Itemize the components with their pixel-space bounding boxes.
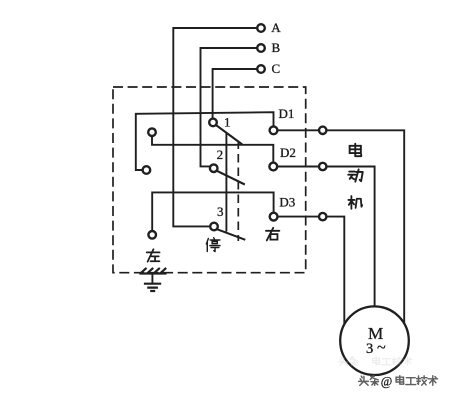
wire U to motor — [326, 130, 404, 324]
watermark ghost row — [339, 357, 412, 366]
chassis ground line — [139, 272, 166, 274]
contact L3 — [148, 231, 156, 239]
terminal D1 — [270, 126, 278, 134]
terminal C — [257, 65, 265, 73]
label zuo (left) — [147, 249, 160, 261]
svg-text:D1: D1 — [279, 106, 295, 121]
terminal D2 — [269, 163, 277, 171]
contact L1 — [148, 128, 156, 136]
terminal A — [257, 24, 265, 32]
outer terminal W — [319, 213, 326, 220]
svg-text:A: A — [271, 20, 281, 35]
terminal B — [257, 44, 265, 52]
blade 3 — [217, 229, 245, 240]
outer terminal V — [319, 163, 326, 170]
earth ground bars — [144, 284, 161, 291]
earth ground stem — [151, 274, 153, 284]
label dong (move) — [348, 169, 363, 181]
wire D2 to outer terminal — [277, 166, 319, 168]
label ji (machine) — [348, 196, 362, 209]
watermark toutiao@diangongjishu — [359, 376, 438, 386]
switch pole 1 — [209, 119, 217, 127]
svg-text:3: 3 — [366, 341, 373, 357]
wire L2 to D1 — [136, 112, 274, 170]
motor M circle — [340, 306, 409, 375]
wire B — [201, 48, 259, 166]
wire C — [213, 69, 259, 118]
label dian (electric) — [350, 144, 362, 157]
outer terminal U — [319, 127, 326, 134]
svg-text:C: C — [272, 61, 281, 76]
label ting (stop) — [206, 238, 220, 252]
chassis ground hatches — [141, 268, 167, 273]
switch pole 3 — [210, 223, 218, 231]
svg-text:~: ~ — [377, 340, 386, 357]
dashed enclosure box — [113, 87, 306, 273]
wire L3 to D3 — [152, 192, 273, 231]
svg-text:D3: D3 — [279, 195, 295, 210]
crossbar wire — [225, 133, 227, 231]
wire W to motor — [326, 217, 344, 325]
wire D1 to outer terminal — [278, 129, 320, 131]
wire A vertical+horizontals — [173, 28, 258, 226]
svg-text:3: 3 — [217, 204, 224, 219]
blade 1 — [216, 125, 242, 145]
svg-text:2: 2 — [217, 147, 224, 162]
blade 2 — [217, 171, 245, 185]
contact L2 — [143, 166, 151, 174]
svg-text:@: @ — [381, 374, 393, 388]
svg-text:B: B — [272, 40, 281, 55]
terminal D3 — [270, 213, 278, 221]
wire V to motor — [326, 167, 374, 308]
switch pole 2 — [210, 164, 218, 172]
wire D3 to outer terminal — [278, 216, 320, 218]
linkage dashed line — [237, 141, 239, 242]
svg-text:1: 1 — [224, 114, 231, 129]
wire L1 to D2 — [152, 136, 273, 162]
label you (right) — [266, 228, 280, 241]
svg-text:D2: D2 — [280, 145, 296, 160]
